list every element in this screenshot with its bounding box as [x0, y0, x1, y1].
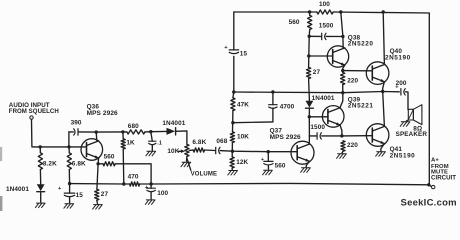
svg-text:.1: .1 [157, 141, 162, 147]
svg-text:27: 27 [101, 191, 109, 198]
svg-text:2N5220: 2N5220 [348, 40, 374, 47]
svg-text:27: 27 [313, 69, 321, 76]
svg-text:10K: 10K [237, 133, 249, 140]
svg-text:SPEAKER: SPEAKER [396, 131, 428, 138]
svg-text:1N4001: 1N4001 [6, 186, 29, 193]
svg-text:100: 100 [319, 1, 330, 8]
svg-text:CIRCUIT: CIRCUIT [431, 175, 456, 182]
svg-text:560: 560 [104, 154, 115, 161]
svg-text:220: 220 [347, 78, 358, 85]
svg-text:15: 15 [76, 192, 84, 199]
svg-text:+: + [224, 45, 228, 51]
svg-text:1500: 1500 [310, 124, 325, 131]
svg-text:1500: 1500 [319, 22, 334, 29]
svg-text:470: 470 [128, 174, 139, 181]
svg-text:680: 680 [128, 123, 139, 130]
svg-text:2N5190: 2N5190 [390, 152, 416, 159]
svg-text:1N4001: 1N4001 [312, 95, 335, 102]
svg-text:390: 390 [71, 120, 82, 127]
svg-text:FROM SQUELCH: FROM SQUELCH [9, 108, 59, 115]
svg-text:6.8K: 6.8K [192, 139, 206, 146]
svg-text:4700: 4700 [280, 104, 295, 111]
svg-text:+: + [261, 157, 264, 163]
svg-text:6.8K: 6.8K [72, 161, 86, 168]
svg-text:560: 560 [289, 19, 300, 26]
svg-text:+: + [395, 85, 398, 91]
svg-text:1N4001: 1N4001 [162, 120, 185, 127]
svg-text:+: + [58, 186, 62, 192]
svg-text:068: 068 [216, 138, 227, 145]
svg-text:1K: 1K [126, 140, 135, 147]
svg-text:15: 15 [240, 51, 248, 58]
svg-text:SeekIC.com: SeekIC.com [401, 198, 457, 209]
svg-text:47K: 47K [237, 102, 249, 109]
svg-text:2N5221: 2N5221 [348, 103, 374, 110]
svg-text:10K: 10K [167, 148, 179, 155]
svg-text:100: 100 [157, 190, 168, 197]
svg-text:2N5190: 2N5190 [385, 54, 411, 61]
svg-text:8.2K: 8.2K [43, 161, 57, 168]
svg-text:220: 220 [347, 142, 358, 149]
svg-text:A+: A+ [431, 158, 439, 164]
svg-text:MPS 2926: MPS 2926 [270, 134, 301, 141]
svg-text:MPS 2926: MPS 2926 [87, 110, 118, 117]
svg-text:VOLUME: VOLUME [191, 172, 218, 178]
svg-text:560: 560 [275, 162, 286, 169]
svg-text:+: + [145, 185, 149, 191]
svg-text:12K: 12K [236, 159, 248, 166]
